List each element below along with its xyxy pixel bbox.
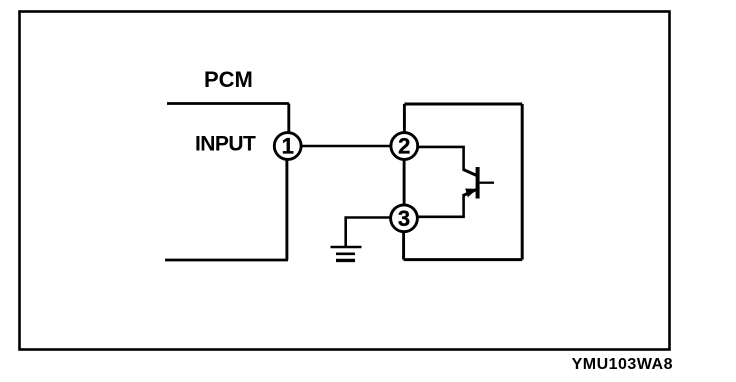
transistor base bar [476, 167, 480, 199]
wire PCM top edge to pin 1 [287, 104, 290, 134]
svg-text:2: 2 [398, 134, 410, 159]
svg-text:YMU103WA8: YMU103WA8 [572, 356, 673, 373]
pin 2 [391, 133, 418, 160]
svg-text:PCM: PCM [204, 67, 253, 92]
component box top edge [404, 103, 522, 106]
wire pin 1 to pin 2 [302, 145, 390, 148]
wire pin 3 to transistor emitter [419, 195, 464, 217]
frame (decorative border) [20, 12, 670, 350]
pin 1 [274, 133, 301, 160]
wire pin 3 to component box bottom [402, 232, 405, 260]
pin 3 [391, 205, 418, 232]
ground [331, 247, 362, 260]
wire pin 2 to transistor collector [419, 147, 464, 170]
transistor base lead [480, 182, 494, 184]
component box bottom edge [404, 258, 523, 261]
wire pin 1 to PCM bottom edge [285, 160, 288, 261]
transistor collector diagonal [463, 169, 477, 175]
transistor emitter diagonal [463, 189, 477, 195]
svg-text:1: 1 [282, 134, 294, 159]
wire pin 2 to pin 3 [403, 160, 406, 206]
transistor [463, 167, 494, 199]
wire pin 3 to ground [346, 218, 390, 247]
PCM box top edge [167, 102, 289, 105]
svg-text:3: 3 [398, 206, 410, 231]
PCM box bottom edge [165, 259, 288, 262]
component box right edge [521, 104, 524, 260]
transistor emitter arrow [465, 189, 477, 198]
svg-text:INPUT: INPUT [195, 133, 256, 156]
wire component box top to pin 2 [403, 104, 406, 133]
